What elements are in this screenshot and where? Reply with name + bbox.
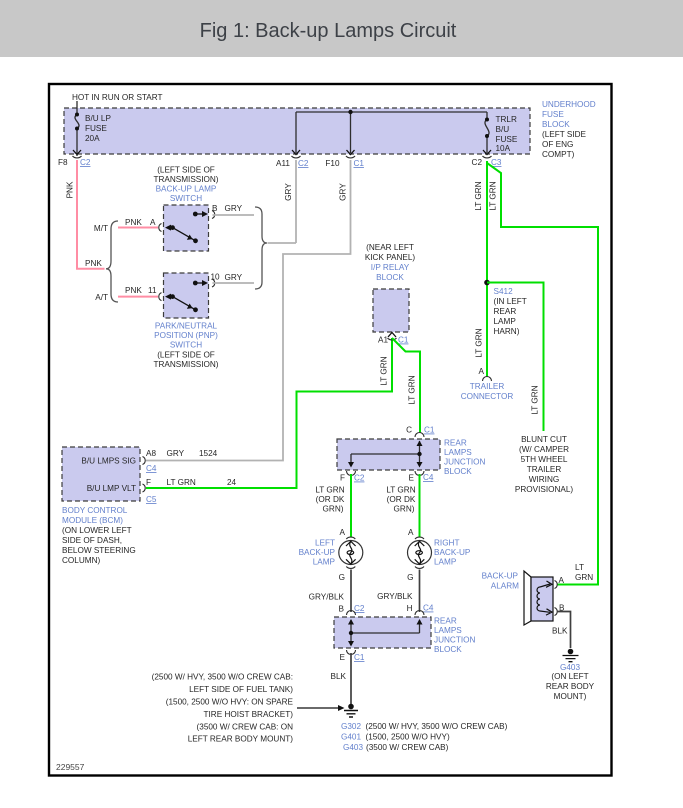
svg-text:M/T: M/T xyxy=(94,224,108,233)
svg-text:LT GRN: LT GRN xyxy=(408,375,417,404)
svg-text:F: F xyxy=(340,474,345,483)
svg-text:1524: 1524 xyxy=(199,449,218,458)
svg-text:B/U LMPS SIG: B/U LMPS SIG xyxy=(81,457,136,466)
svg-text:COLUMN): COLUMN) xyxy=(62,556,100,565)
svg-text:GRN): GRN) xyxy=(323,505,344,514)
svg-text:S412: S412 xyxy=(494,287,514,296)
svg-text:G302: G302 xyxy=(341,722,361,731)
svg-text:LEFT SIDE OF FUEL TANK): LEFT SIDE OF FUEL TANK) xyxy=(189,685,293,694)
svg-text:TRANSMISSION): TRANSMISSION) xyxy=(153,175,218,184)
svg-text:E: E xyxy=(340,653,346,662)
svg-text:BACK-UP: BACK-UP xyxy=(299,548,336,557)
svg-text:(LEFT SIDE OF: (LEFT SIDE OF xyxy=(157,351,215,360)
svg-text:HOT IN RUN OR START: HOT IN RUN OR START xyxy=(72,93,163,102)
svg-text:TRANSMISSION): TRANSMISSION) xyxy=(153,360,218,369)
svg-text:E: E xyxy=(409,474,415,483)
svg-text:TRAILER: TRAILER xyxy=(470,382,505,391)
svg-text:PNK: PNK xyxy=(125,286,142,295)
svg-text:10A: 10A xyxy=(496,144,511,153)
svg-text:(2500 W/ HVY, 3500 W/O CREW CA: (2500 W/ HVY, 3500 W/O CREW CAB) xyxy=(366,722,508,731)
svg-text:C4: C4 xyxy=(423,473,434,482)
svg-text:229557: 229557 xyxy=(56,762,85,772)
svg-text:LAMP: LAMP xyxy=(434,558,457,567)
svg-text:UNDERHOOD: UNDERHOOD xyxy=(542,100,596,109)
svg-text:LT GRN: LT GRN xyxy=(315,486,344,495)
svg-text:C2: C2 xyxy=(354,604,365,613)
svg-text:BLK: BLK xyxy=(552,627,568,636)
svg-text:GRY: GRY xyxy=(339,183,348,201)
svg-text:MODULE (BCM): MODULE (BCM) xyxy=(62,516,123,525)
svg-text:C1: C1 xyxy=(398,336,409,345)
svg-text:JUNCTION: JUNCTION xyxy=(434,636,475,645)
svg-text:BACK-UP: BACK-UP xyxy=(482,572,519,581)
svg-text:FUSE: FUSE xyxy=(85,124,107,133)
svg-text:Fig 1: Back-up Lamps Circuit: Fig 1: Back-up Lamps Circuit xyxy=(200,20,457,42)
svg-text:C2: C2 xyxy=(472,158,483,167)
svg-text:RIGHT: RIGHT xyxy=(434,539,459,548)
svg-text:BLOCK: BLOCK xyxy=(376,273,404,282)
svg-text:LT: LT xyxy=(575,563,584,572)
svg-text:BLOCK: BLOCK xyxy=(444,467,472,476)
svg-text:C: C xyxy=(406,426,412,435)
svg-text:LT GRN: LT GRN xyxy=(167,478,196,487)
svg-text:G: G xyxy=(339,573,345,582)
svg-text:C2: C2 xyxy=(80,158,91,167)
svg-text:F8: F8 xyxy=(58,158,68,167)
svg-text:5TH WHEEL: 5TH WHEEL xyxy=(521,455,568,464)
svg-text:A: A xyxy=(340,528,346,537)
svg-text:KICK PANEL): KICK PANEL) xyxy=(365,253,416,262)
svg-text:A: A xyxy=(150,218,156,227)
svg-text:10: 10 xyxy=(211,273,221,282)
svg-text:LEFT REAR BODY MOUNT): LEFT REAR BODY MOUNT) xyxy=(188,735,294,744)
svg-text:G401: G401 xyxy=(341,733,361,742)
svg-text:(3500 W/ CREW CAB: ON: (3500 W/ CREW CAB: ON xyxy=(197,723,294,732)
svg-text:C4: C4 xyxy=(423,604,434,613)
svg-text:H: H xyxy=(407,604,413,613)
svg-text:C2: C2 xyxy=(298,159,309,168)
svg-text:GRN: GRN xyxy=(575,573,593,582)
svg-text:(ON LOWER LEFT: (ON LOWER LEFT xyxy=(62,526,132,535)
svg-text:GRY: GRY xyxy=(284,183,293,201)
svg-text:11: 11 xyxy=(148,286,157,295)
svg-text:(OR DK: (OR DK xyxy=(316,495,345,504)
svg-text:GRY: GRY xyxy=(225,273,243,282)
svg-text:LT GRN: LT GRN xyxy=(531,385,540,414)
svg-text:SWITCH: SWITCH xyxy=(170,341,202,350)
svg-text:B: B xyxy=(212,204,218,213)
svg-text:PNK: PNK xyxy=(66,181,75,198)
svg-text:A: A xyxy=(408,528,414,537)
svg-text:FUSE: FUSE xyxy=(542,110,564,119)
svg-text:C5: C5 xyxy=(146,495,157,504)
svg-text:JUNCTION: JUNCTION xyxy=(444,458,485,467)
svg-text:TRAILER: TRAILER xyxy=(527,465,562,474)
svg-text:I/P RELAY: I/P RELAY xyxy=(371,263,410,272)
svg-text:CONNECTOR: CONNECTOR xyxy=(461,392,514,401)
svg-text:REAR BODY: REAR BODY xyxy=(546,682,595,691)
svg-text:C2: C2 xyxy=(354,474,365,483)
svg-text:BODY CONTROL: BODY CONTROL xyxy=(62,506,128,515)
svg-text:BELOW STEERING: BELOW STEERING xyxy=(62,546,136,555)
svg-text:TRLR: TRLR xyxy=(496,115,517,124)
svg-text:C1: C1 xyxy=(354,159,365,168)
svg-text:REAR: REAR xyxy=(494,307,517,316)
svg-text:COMPT): COMPT) xyxy=(542,150,575,159)
svg-text:WIRING: WIRING xyxy=(529,475,559,484)
svg-text:LAMPS: LAMPS xyxy=(434,626,462,635)
svg-text:B/U: B/U xyxy=(496,125,510,134)
svg-text:C1: C1 xyxy=(424,426,435,435)
svg-text:C3: C3 xyxy=(491,158,502,167)
svg-text:B/U LMP VLT: B/U LMP VLT xyxy=(87,484,136,493)
svg-text:BLUNT CUT: BLUNT CUT xyxy=(521,435,567,444)
svg-text:A1: A1 xyxy=(378,336,388,345)
svg-text:BACK-UP: BACK-UP xyxy=(434,548,471,557)
svg-text:F10: F10 xyxy=(325,159,340,168)
svg-text:G403: G403 xyxy=(560,663,580,672)
svg-text:A8: A8 xyxy=(146,449,156,458)
svg-text:REAR: REAR xyxy=(434,617,457,626)
svg-text:LT GRN: LT GRN xyxy=(380,356,389,385)
svg-text:LT GRN: LT GRN xyxy=(489,181,498,210)
svg-text:GRY: GRY xyxy=(167,449,185,458)
svg-text:REAR: REAR xyxy=(444,439,467,448)
svg-text:B/U LP: B/U LP xyxy=(85,114,111,123)
svg-text:LAMP: LAMP xyxy=(494,317,517,326)
svg-text:BACK-UP LAMP: BACK-UP LAMP xyxy=(156,185,217,194)
svg-text:GRY/BLK: GRY/BLK xyxy=(309,593,345,602)
svg-text:TIRE HOIST BRACKET): TIRE HOIST BRACKET) xyxy=(204,710,294,719)
svg-text:(OR DK: (OR DK xyxy=(387,495,416,504)
svg-text:PARK/NEUTRAL: PARK/NEUTRAL xyxy=(155,322,218,331)
svg-text:PNK: PNK xyxy=(125,218,142,227)
svg-text:(2500 W/ HVY, 3500 W/O CREW CA: (2500 W/ HVY, 3500 W/O CREW CAB: xyxy=(152,673,293,682)
svg-text:BLOCK: BLOCK xyxy=(434,645,462,654)
svg-text:LT GRN: LT GRN xyxy=(474,181,483,210)
svg-text:20A: 20A xyxy=(85,134,100,143)
svg-text:PROVISIONAL): PROVISIONAL) xyxy=(515,485,574,494)
svg-text:24: 24 xyxy=(227,478,237,487)
svg-text:HARN): HARN) xyxy=(494,327,520,336)
svg-text:C4: C4 xyxy=(146,464,157,473)
svg-text:FUSE: FUSE xyxy=(496,135,518,144)
svg-text:(NEAR LEFT: (NEAR LEFT xyxy=(366,243,414,252)
svg-text:(1500, 2500 W/O HVY): (1500, 2500 W/O HVY) xyxy=(366,733,450,742)
svg-text:(LEFT SIDE: (LEFT SIDE xyxy=(542,130,587,139)
svg-text:(W/ CAMPER: (W/ CAMPER xyxy=(519,445,569,454)
svg-text:OF ENG: OF ENG xyxy=(542,140,573,149)
svg-text:MOUNT): MOUNT) xyxy=(554,692,587,701)
svg-text:A: A xyxy=(479,367,485,376)
svg-text:B: B xyxy=(339,605,345,614)
svg-text:A/T: A/T xyxy=(95,293,108,302)
svg-text:(1500, 2500 W/O HVY: ON SPARE: (1500, 2500 W/O HVY: ON SPARE xyxy=(166,698,294,707)
svg-text:BLOCK: BLOCK xyxy=(542,120,570,129)
svg-text:GRY: GRY xyxy=(225,204,243,213)
svg-text:LEFT: LEFT xyxy=(315,539,335,548)
svg-text:F: F xyxy=(146,478,151,487)
svg-text:GRY/BLK: GRY/BLK xyxy=(377,592,413,601)
svg-text:(IN LEFT: (IN LEFT xyxy=(494,297,527,306)
svg-text:G403: G403 xyxy=(343,743,363,752)
svg-text:SIDE OF DASH,: SIDE OF DASH, xyxy=(62,536,122,545)
svg-text:A: A xyxy=(559,576,565,585)
svg-text:POSITION (PNP): POSITION (PNP) xyxy=(154,331,218,340)
svg-text:A11: A11 xyxy=(276,159,290,168)
svg-text:LT GRN: LT GRN xyxy=(475,328,484,357)
svg-text:LAMP: LAMP xyxy=(313,558,336,567)
svg-text:BLK: BLK xyxy=(331,672,347,681)
svg-text:GRN): GRN) xyxy=(394,505,415,514)
svg-text:LT GRN: LT GRN xyxy=(386,486,415,495)
svg-text:PNK: PNK xyxy=(85,259,102,268)
svg-text:ALARM: ALARM xyxy=(491,582,519,591)
svg-text:C1: C1 xyxy=(354,653,365,662)
svg-text:G: G xyxy=(407,573,413,582)
svg-text:LAMPS: LAMPS xyxy=(444,448,472,457)
svg-text:SWITCH: SWITCH xyxy=(170,194,202,203)
svg-text:(3500 W/ CREW CAB): (3500 W/ CREW CAB) xyxy=(366,743,449,752)
svg-text:(ON LEFT: (ON LEFT xyxy=(551,672,588,681)
svg-text:(LEFT SIDE OF: (LEFT SIDE OF xyxy=(157,166,215,175)
